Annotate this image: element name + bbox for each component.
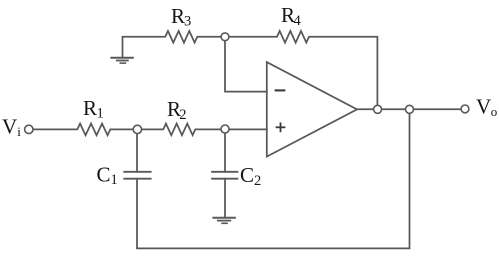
svg-text:V: V	[476, 94, 491, 118]
svg-text:C: C	[97, 162, 111, 186]
svg-text:2: 2	[179, 107, 186, 123]
svg-text:R: R	[171, 4, 185, 28]
svg-text:4: 4	[294, 13, 302, 29]
svg-text:C: C	[240, 163, 254, 187]
svg-text:V: V	[2, 114, 17, 138]
svg-text:o: o	[491, 104, 498, 119]
svg-text:1: 1	[111, 172, 118, 188]
svg-text:2: 2	[254, 173, 261, 189]
svg-text:1: 1	[97, 106, 104, 122]
svg-text:i: i	[17, 124, 21, 139]
svg-text:3: 3	[184, 14, 191, 30]
svg-text:R: R	[83, 96, 97, 120]
